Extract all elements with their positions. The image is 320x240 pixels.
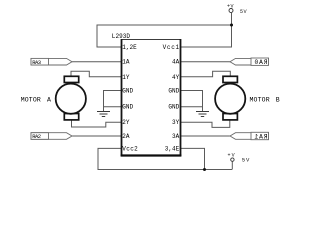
wire Vcc2 to bottom rail [98, 148, 232, 169]
svg-text:4Y: 4Y [172, 74, 180, 81]
svg-text:2A: 2A [122, 133, 130, 140]
svg-text:Vcc1: Vcc1 [163, 44, 180, 51]
terminal flag RA3 [31, 58, 72, 65]
wire 5V bottom vertical [231, 162, 233, 170]
svg-text:4A: 4A [172, 59, 180, 66]
svg-text:Vcc2: Vcc2 [122, 145, 138, 152]
junction dot top rail [230, 24, 233, 27]
wire RA3 to 1A [72, 61, 122, 63]
power terminal 5V top [227, 4, 248, 15]
svg-text:3A: 3A [172, 133, 180, 140]
svg-text:+V: +V [227, 4, 234, 10]
svg-text:GND: GND [122, 88, 133, 95]
terminal flag right upper (mirrored RA0) [230, 58, 269, 65]
wire GND left upper [104, 91, 122, 112]
wire GND right lower [181, 106, 203, 108]
svg-text:MOTOR: MOTOR [250, 96, 270, 103]
svg-text:1,2E: 1,2E [122, 44, 137, 51]
svg-text:2Y: 2Y [122, 119, 130, 126]
terminal flag right lower (mirrored RA1) [230, 132, 269, 139]
wire top rail [97, 25, 232, 47]
wire 3,4EN to bottom rail [181, 148, 205, 169]
svg-text:GND: GND [168, 88, 179, 95]
wire motor A top to 1Y [71, 71, 122, 77]
IC U1 L293D body [121, 39, 182, 156]
svg-text:3Y: 3Y [172, 119, 180, 126]
svg-text:A: A [47, 96, 51, 103]
wire 3Y to motor B bottom [181, 120, 230, 127]
svg-text:L293D: L293D [112, 33, 131, 40]
svg-text:GND: GND [122, 104, 133, 111]
svg-text:+V: +V [228, 153, 236, 159]
ground left [97, 112, 110, 117]
wire GND right upper [181, 91, 203, 112]
svg-text:RA0: RA0 [254, 59, 268, 66]
motor A [56, 76, 86, 120]
wire GND left lower [104, 106, 122, 108]
wire 5V top vertical [181, 13, 232, 47]
svg-text:GND: GND [168, 104, 179, 111]
svg-text:RA2: RA2 [32, 133, 41, 140]
svg-text:5V: 5V [240, 9, 248, 15]
junction dot bottom rail [203, 168, 206, 171]
wire RA2 to 2A [72, 135, 122, 137]
power terminal 5V bottom [228, 153, 251, 164]
svg-text:B: B [276, 96, 280, 103]
motor B [215, 76, 245, 120]
svg-text:RA1: RA1 [254, 134, 268, 141]
terminal flag RA2 [31, 133, 72, 140]
svg-text:MOTOR: MOTOR [21, 96, 41, 103]
svg-text:RA3: RA3 [32, 59, 41, 66]
svg-text:5V: 5V [242, 156, 250, 163]
wire 4A to right flag [181, 61, 231, 63]
svg-text:1Y: 1Y [122, 74, 130, 81]
svg-text:1A: 1A [122, 59, 130, 66]
ground right [196, 112, 209, 117]
wire 3A to right flag [181, 135, 231, 137]
wire 4Y to motor B top [181, 71, 231, 77]
svg-text:3,4E: 3,4E [165, 145, 180, 152]
wire motor A bottom to 2Y [72, 120, 122, 127]
